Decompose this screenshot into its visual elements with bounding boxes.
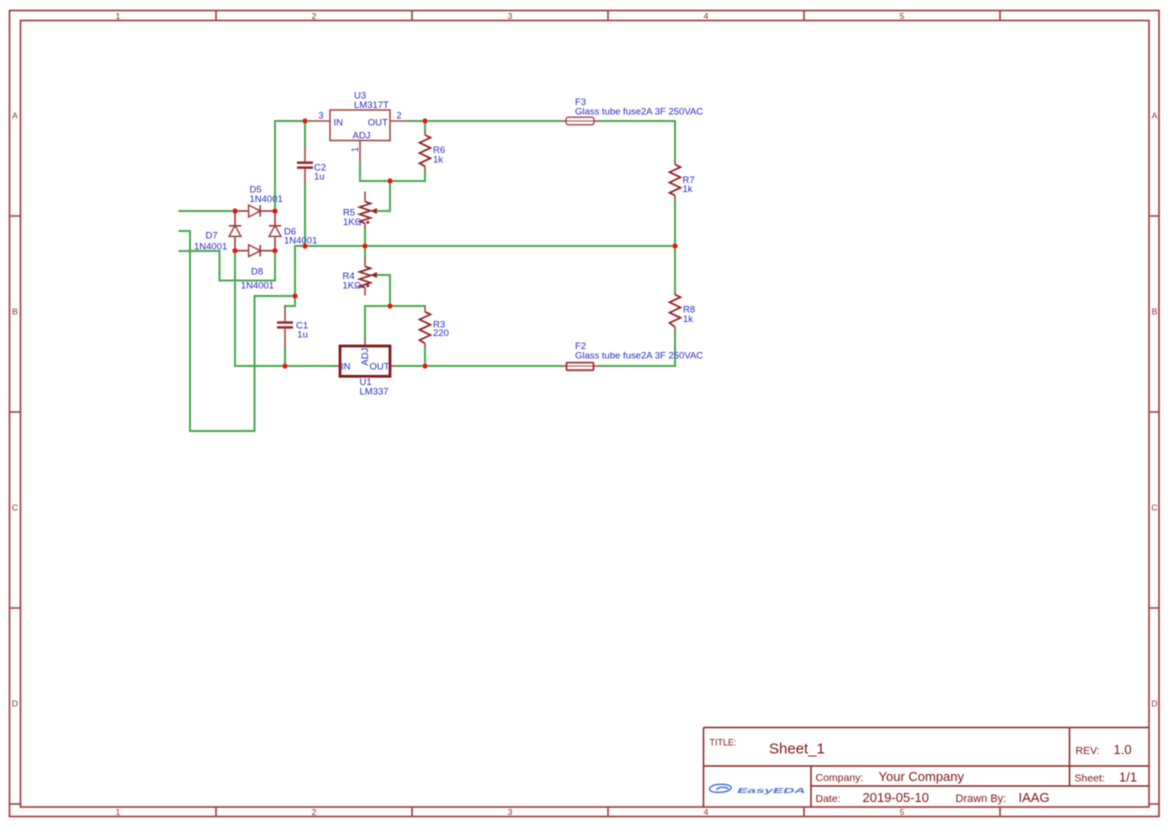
svg-text:OUT: OUT [369, 362, 389, 373]
svg-text:4: 4 [704, 11, 709, 21]
svg-text:ADJ: ADJ [360, 347, 371, 365]
node C1 bottom / U1 IN [282, 363, 287, 368]
wire R6 top [424, 121, 426, 131]
wire R8 bottom to F2 right [599, 330, 675, 366]
node bus / R7-R8 [672, 243, 677, 248]
diode D5 1N4001 [235, 205, 275, 217]
F2 through line [567, 365, 594, 367]
U1 pin OUT lead [390, 365, 395, 367]
wire bridge top-right up to U3 IN node [275, 121, 310, 211]
svg-text:Company:: Company: [816, 772, 864, 784]
resistor R6 1k [420, 135, 431, 166]
node U3 OUT / R6 [422, 118, 427, 123]
wire C1 bottom [284, 347, 286, 366]
wire U3 OUT to F3 [410, 120, 561, 122]
regulator U1 LM337 box [340, 346, 390, 376]
R6 leads [424, 131, 426, 171]
svg-text:1k: 1k [683, 184, 693, 195]
svg-text:D: D [12, 699, 18, 709]
node bridge bottom-right [272, 248, 277, 253]
wires (green) [180, 121, 676, 431]
wire AC input 1 to bridge top-left [180, 210, 236, 212]
svg-text:IN: IN [341, 362, 351, 373]
svg-text:3: 3 [508, 807, 513, 817]
svg-text:1KΩ: 1KΩ [343, 281, 362, 292]
svg-text:5: 5 [900, 807, 905, 817]
svg-text:220: 220 [433, 328, 449, 339]
svg-text:1k: 1k [433, 154, 443, 165]
svg-text:Sheet_1: Sheet_1 [769, 741, 825, 758]
svg-text:D8: D8 [251, 266, 263, 277]
svg-text:Drawn By:: Drawn By: [956, 793, 1007, 805]
svg-text:ADJ: ADJ [353, 131, 371, 142]
fuse F2 body [567, 363, 594, 371]
wire node C1-top riser [294, 246, 296, 296]
svg-text:3: 3 [319, 111, 324, 121]
wire bridge minus down to U1 IN [235, 251, 335, 366]
svg-text:4: 4 [704, 807, 709, 817]
svg-text:TITLE:: TITLE: [710, 738, 737, 748]
resistor R3 220 [420, 312, 431, 344]
EasyEDA logo [710, 784, 806, 794]
svg-text:B: B [12, 307, 18, 317]
node U3 IN / C2 [302, 118, 307, 123]
wire R5 wiper link [375, 181, 390, 211]
svg-text:C: C [1151, 503, 1157, 513]
title block [704, 728, 1150, 808]
wire U1 OUT to F2 left [395, 365, 562, 367]
wire AC input 3 to bridge bottom-right [180, 251, 276, 281]
wire R7 bottom to bus [674, 200, 676, 246]
F3 through line [566, 120, 594, 122]
C1 leads [284, 307, 286, 347]
node U1 OUT / R3 [422, 363, 427, 368]
R5 leads [364, 192, 366, 229]
svg-text:1KΩ: 1KΩ [343, 217, 362, 228]
svg-text:C: C [12, 503, 18, 513]
svg-text:1: 1 [116, 11, 121, 21]
regulator U3 LM317T box [330, 110, 390, 141]
wire outer loop left/bottom/right [190, 231, 295, 431]
node bus / R5-R4 [362, 243, 367, 248]
R8 leads [674, 292, 676, 330]
U1 pin ADJ lead [364, 338, 366, 346]
U3 pin OUT lead [390, 120, 410, 122]
node ADJ net A [387, 178, 392, 183]
potentiometer R5 1KΩ body [360, 202, 371, 224]
svg-text:2019-05-10: 2019-05-10 [863, 790, 930, 805]
resistor R7 1k [670, 165, 681, 196]
svg-text:1N4001: 1N4001 [284, 235, 317, 246]
svg-text:5: 5 [900, 11, 905, 21]
wire C2 top connection [304, 121, 306, 147]
svg-text:2: 2 [312, 11, 317, 21]
svg-text:2: 2 [397, 111, 402, 121]
svg-text:1N4001: 1N4001 [194, 241, 227, 252]
fuse F3 body [566, 117, 594, 125]
wire R6 bottom to ADJ net [360, 161, 425, 181]
component leads (dark red) [285, 121, 675, 366]
resistor R8 1k [670, 295, 681, 327]
potentiometer R4 wiper arrow [366, 272, 377, 287]
diode D6 1N4001 [269, 211, 281, 251]
labels (blue) [194, 91, 703, 398]
U1 pin IN lead [335, 365, 340, 367]
C2 leads [304, 147, 306, 185]
svg-text:3: 3 [508, 11, 513, 21]
svg-text:1/1: 1/1 [1119, 770, 1137, 785]
capacitor C2 1u plates [297, 163, 313, 168]
U3 pin ADJ lead [359, 141, 361, 162]
wire U1 ADJ net horizontal [365, 305, 425, 307]
wire R3 bottom to OUT wire [424, 348, 426, 366]
svg-text:1k: 1k [683, 314, 693, 325]
svg-text:1.0: 1.0 [1114, 742, 1132, 757]
svg-text:A: A [12, 111, 18, 121]
node bus / C2 [302, 243, 307, 248]
junction node dots [232, 118, 677, 368]
R7 leads [674, 161, 676, 200]
diode D8 1N4001 [235, 245, 275, 257]
wire bus to R4 top [364, 246, 366, 257]
svg-text:1N4001: 1N4001 [241, 281, 274, 292]
svg-text:Glass tube fuse2A 3F 250VAC: Glass tube fuse2A 3F 250VAC [575, 106, 703, 117]
wire U1 ADJ riser [364, 306, 366, 338]
svg-text:Your Company: Your Company [879, 769, 965, 784]
svg-text:IAAG: IAAG [1019, 790, 1050, 805]
diode D7 1N4001 [229, 211, 241, 251]
wire main bus [295, 245, 675, 247]
node C1 top [292, 293, 297, 298]
svg-text:D: D [1151, 699, 1157, 709]
potentiometer R5 wiper arrow [366, 208, 377, 224]
svg-text:Date:: Date: [816, 793, 841, 805]
svg-text:1: 1 [116, 807, 121, 817]
svg-text:1N4001: 1N4001 [250, 194, 283, 205]
node bridge top-left [232, 208, 237, 213]
potentiometer R4 1KΩ body [360, 266, 371, 287]
node bridge top-right [272, 208, 277, 213]
svg-text:D7: D7 [206, 231, 218, 242]
svg-text:Glass tube fuse2A 3F 250VAC: Glass tube fuse2A 3F 250VAC [575, 350, 703, 361]
svg-text:B: B [1152, 307, 1158, 317]
wire R4 wiper link [375, 275, 390, 306]
svg-text:LM317T: LM317T [354, 100, 389, 111]
F2 leads [561, 365, 599, 367]
svg-text:REV:: REV: [1076, 745, 1100, 757]
svg-text:1u: 1u [297, 330, 308, 341]
R4 leads [364, 257, 366, 296]
capacitor C1 1u plates [277, 323, 293, 328]
R3 leads [424, 306, 426, 348]
wire C2 bottom to bus [304, 185, 306, 247]
svg-text:1u: 1u [314, 172, 325, 183]
SCHEMATIC [180, 91, 704, 432]
wire bus to R8 top [674, 246, 676, 292]
svg-text:2: 2 [312, 807, 317, 817]
node U1 ADJ net [387, 303, 392, 308]
F3 leads [561, 120, 599, 122]
wire F3 to R7 top [599, 121, 675, 161]
svg-text:Sheet:: Sheet: [1075, 773, 1105, 785]
svg-text:LM337: LM337 [360, 387, 389, 398]
U3 pin IN lead [310, 120, 330, 122]
wire C1 top step [285, 296, 295, 307]
svg-text:EasyEDA: EasyEDA [737, 786, 805, 795]
svg-text:A: A [1152, 111, 1158, 121]
node bridge bottom-left [232, 248, 237, 253]
svg-text:OUT: OUT [368, 117, 388, 128]
wire AC input 2 stub [180, 230, 191, 232]
svg-text:IN: IN [334, 117, 344, 128]
wire R5 bottom to bus [364, 229, 366, 247]
svg-text:1: 1 [350, 147, 360, 152]
